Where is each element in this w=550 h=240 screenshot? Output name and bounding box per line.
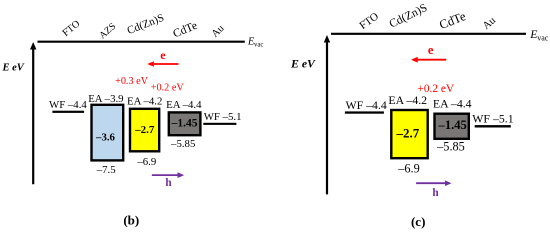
svg-text:h: h bbox=[165, 177, 172, 189]
svg-text:e: e bbox=[428, 43, 434, 57]
svg-text:(c): (c) bbox=[411, 214, 425, 229]
svg-text:–1.45: –1.45 bbox=[171, 118, 198, 130]
svg-text:WF –5.1: WF –5.1 bbox=[472, 112, 513, 126]
svg-text:h: h bbox=[432, 187, 439, 199]
svg-text:E eV: E eV bbox=[290, 56, 316, 70]
svg-text:vac: vac bbox=[254, 41, 263, 48]
electron arrow e (c) bbox=[411, 43, 446, 63]
svg-text:+0.3 eV: +0.3 eV bbox=[115, 76, 149, 87]
svg-text:–2.7: –2.7 bbox=[134, 124, 155, 136]
CdTe band box (c) bbox=[435, 114, 469, 139]
WF level line Au (b) bbox=[203, 123, 236, 125]
svg-text:–6.9: –6.9 bbox=[136, 156, 156, 168]
Evac level line (b) bbox=[38, 41, 245, 43]
svg-text:–5.85: –5.85 bbox=[436, 139, 465, 153]
svg-text:vac: vac bbox=[537, 33, 549, 42]
svg-text:EA –4.4: EA –4.4 bbox=[433, 97, 472, 111]
Cd(Zn)S band box (b) bbox=[130, 109, 159, 152]
hole arrow h (c) bbox=[416, 180, 451, 199]
svg-text:–6.9: –6.9 bbox=[397, 162, 420, 176]
svg-text:–5.85: –5.85 bbox=[170, 138, 195, 150]
WF level line Au (c) bbox=[475, 125, 511, 127]
svg-text:e: e bbox=[160, 48, 166, 62]
energy axis arrow (b) bbox=[30, 42, 36, 184]
electron arrow e (b) bbox=[147, 48, 178, 67]
svg-text:+0.2 eV: +0.2 eV bbox=[151, 82, 185, 93]
svg-text:EA –3.9: EA –3.9 bbox=[88, 93, 123, 105]
hole arrow h (b) bbox=[152, 172, 184, 189]
svg-text:EA –4.2: EA –4.2 bbox=[127, 96, 162, 108]
svg-text:WF –4.4: WF –4.4 bbox=[346, 98, 387, 112]
svg-text:–3.6: –3.6 bbox=[95, 131, 115, 143]
svg-text:(b): (b) bbox=[123, 212, 139, 227]
svg-text:–1.45: –1.45 bbox=[438, 118, 467, 132]
energy axis arrow (c) bbox=[324, 35, 330, 194]
svg-text:WF –5.1: WF –5.1 bbox=[204, 111, 242, 123]
svg-text:EA –4.4: EA –4.4 bbox=[166, 99, 202, 111]
svg-text:E eV: E eV bbox=[2, 63, 25, 74]
Cd(Zn)S band box (c) bbox=[391, 110, 427, 158]
svg-text:–7.5: –7.5 bbox=[96, 164, 116, 176]
CdTe band box (b) bbox=[169, 112, 201, 135]
WF level line FTO (b) bbox=[52, 111, 84, 113]
svg-text:WF –4.4: WF –4.4 bbox=[49, 99, 87, 111]
Evac level line (c) bbox=[331, 33, 526, 35]
svg-text:EA –4.2: EA –4.2 bbox=[388, 93, 427, 107]
svg-text:–2.7: –2.7 bbox=[396, 126, 420, 141]
AZS band box (b) bbox=[92, 105, 124, 161]
WF level line FTO (c) bbox=[345, 111, 384, 113]
